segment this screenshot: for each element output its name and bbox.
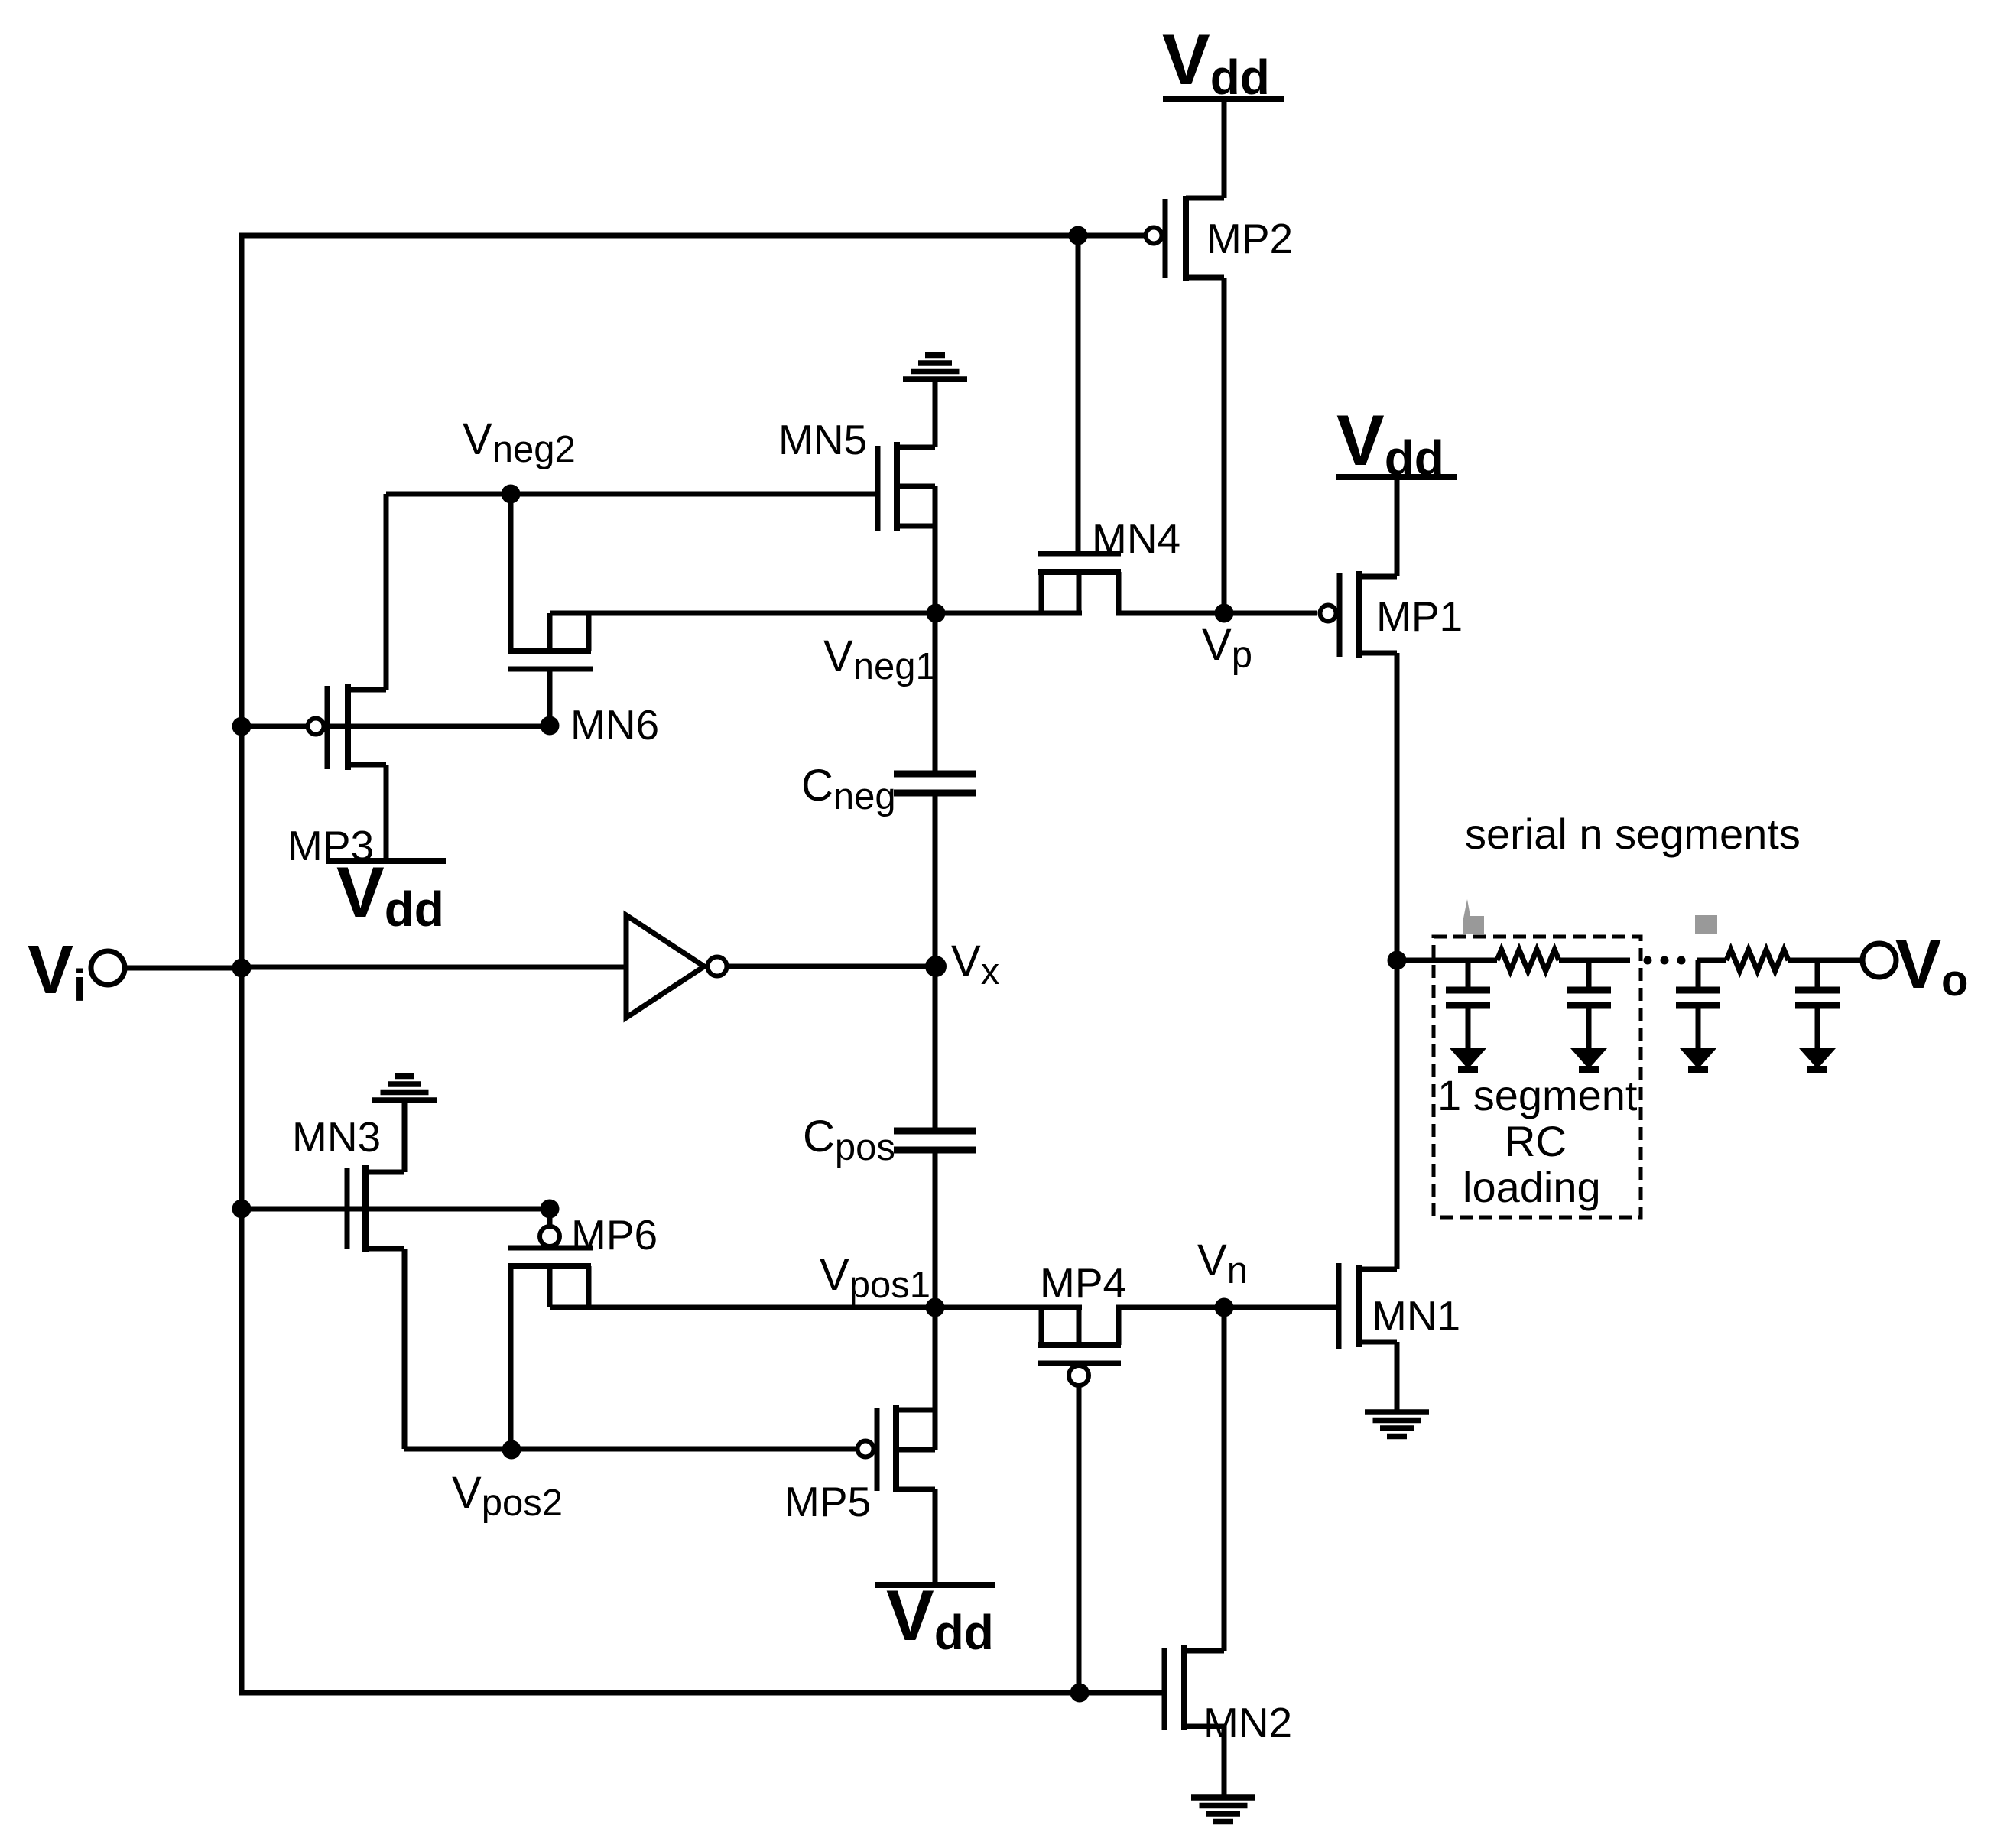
wire inverter output to node Vx bbox=[727, 964, 936, 969]
node junction bottom wire / MP4 gate lead bbox=[1070, 1684, 1090, 1703]
wire R2 to terminal Vo bbox=[1788, 958, 1862, 963]
node MN6 gate junction bbox=[541, 716, 560, 736]
wire gate line from left rail through MP3 to MN6 gate bbox=[242, 724, 550, 729]
svg-text:loading: loading bbox=[1463, 1163, 1601, 1211]
terminal Vo bbox=[1862, 927, 1968, 1005]
power Vdd rail (inverted) for MP5 bbox=[875, 1575, 995, 1660]
node MP6 gate junction bbox=[541, 1200, 560, 1219]
node junction Vi / left rail bbox=[232, 959, 252, 978]
power Vdd rail for MP2 bbox=[1162, 19, 1284, 105]
wire MP6 to node Vpos1 and MP4 bbox=[550, 1305, 1082, 1310]
node Vn bbox=[1215, 1298, 1234, 1317]
capacitor C1 (segment 1 input) bbox=[1446, 960, 1490, 1049]
svg-text:MP1: MP1 bbox=[1376, 593, 1463, 640]
wire left vertical rail from top wire to bottom wire bbox=[239, 233, 245, 1695]
transistor MP3 (PMOS) bbox=[287, 684, 386, 869]
node Vpos2 bbox=[502, 1440, 521, 1460]
wire node Vn to MN1 gate bbox=[1224, 1305, 1339, 1310]
svg-text:MP5: MP5 bbox=[784, 1478, 871, 1525]
ground arrow under C1 bbox=[1450, 1048, 1486, 1073]
node Vp bbox=[1215, 604, 1234, 623]
svg-text:MN2: MN2 bbox=[1203, 1699, 1292, 1746]
wire Vi to left rail bbox=[125, 966, 242, 971]
capacitor C2 (segment 1 output) bbox=[1567, 960, 1611, 1049]
wire MP5 source down to Vdd (inverted) bbox=[933, 1489, 938, 1585]
wire gate line from left rail through MN3 to MP6 gate bbox=[242, 1207, 550, 1212]
transistor MN6 (NMOS, rotated) bbox=[508, 613, 659, 749]
transistor MP4 (PMOS pass, rotated) bbox=[1038, 1259, 1126, 1385]
node junction left rail / MP3-MN6 gate wire bbox=[232, 717, 252, 736]
svg-text:serial n segments: serial n segments bbox=[1465, 810, 1801, 858]
wire Vneg2 left end down to MP3 source bbox=[384, 494, 389, 690]
wire last segment input bbox=[1697, 958, 1726, 963]
wire MN4 to node Vp bbox=[1116, 611, 1224, 616]
wire Vneg2 node down to MN6 drain bbox=[508, 494, 514, 651]
transistor MN1 (NMOS) bbox=[1339, 1263, 1460, 1349]
node junction left rail / MN3 gate wire bbox=[232, 1200, 252, 1219]
ground at MN5 drain bbox=[903, 356, 967, 380]
wire R1 to segment edge bbox=[1559, 958, 1630, 963]
wire MP4 to node Vn bbox=[1116, 1305, 1224, 1310]
resistor R2 (last segment) bbox=[1726, 950, 1788, 971]
wire ground to MN3 drain bbox=[402, 1103, 408, 1172]
wire MN3 source down to node Vpos2 bbox=[402, 1249, 408, 1449]
wire MP4 gate lead down to bottom junction bbox=[1077, 1386, 1082, 1693]
wire Vdd bar to MP2 source bbox=[1222, 99, 1227, 198]
wire MP1 drain down to output node bbox=[1395, 653, 1400, 960]
wire MN1 source down to ground bbox=[1395, 1342, 1400, 1410]
wire node Vneg2 horizontal to MN5 gate bbox=[386, 492, 878, 497]
wire Vpos1 node down to MP5 bbox=[933, 1307, 938, 1410]
wire Vdd bar to MP1 source bbox=[1395, 477, 1400, 576]
wire MN2 source down to ground bbox=[1222, 1726, 1227, 1795]
resistor R1 (segment 1) bbox=[1497, 950, 1559, 971]
svg-text:MP6: MP6 bbox=[571, 1211, 658, 1259]
wire node Vp to MP1 gate bbox=[1224, 611, 1317, 616]
transistor MN5 (NMOS) bbox=[778, 416, 935, 531]
capacitor C3 (last segment input) bbox=[1676, 960, 1720, 1049]
node Vx bbox=[925, 956, 947, 977]
dots continuation of RC chain bbox=[1644, 956, 1652, 965]
svg-text:MN1: MN1 bbox=[1372, 1292, 1460, 1340]
ground at MN3 drain bbox=[372, 1077, 437, 1101]
artifact grey mark 2 bbox=[1695, 915, 1717, 934]
dashed box 1 segment RC loading bbox=[1434, 937, 1641, 1217]
artifact grey mark 1 bbox=[1463, 899, 1484, 934]
ground arrow under C2 bbox=[1570, 1048, 1607, 1073]
wire gate lead from top junction down to MN4 bbox=[1076, 235, 1081, 551]
svg-text:MN6: MN6 bbox=[570, 701, 659, 749]
wire MP3 drain down to Vdd (inverted) bbox=[384, 765, 389, 861]
wire left rail to inverter input bbox=[242, 965, 626, 970]
svg-text:MN3: MN3 bbox=[292, 1113, 381, 1161]
svg-text:1 segment: 1 segment bbox=[1437, 1071, 1638, 1119]
svg-text:MN4: MN4 bbox=[1092, 515, 1180, 562]
wire Cpos down to node Vpos1 bbox=[933, 1150, 938, 1307]
node Vpos1 bbox=[926, 1298, 945, 1317]
wire node Vpos2 horizontal to MP5 gate bbox=[404, 1447, 856, 1452]
transistor MP5 (PMOS) bbox=[784, 1405, 935, 1525]
wire output node to RC segment 1 bbox=[1397, 958, 1497, 963]
ground arrow under C3 bbox=[1680, 1048, 1716, 1073]
capacitor Cpos bbox=[803, 1112, 976, 1168]
svg-text:MP2: MP2 bbox=[1206, 215, 1293, 262]
inverter U1 bbox=[626, 915, 727, 1018]
transistor MN4 (NMOS pass, rotated) bbox=[1038, 515, 1180, 613]
ground arrow under C4 bbox=[1799, 1048, 1836, 1073]
power Vdd rail for MP1 bbox=[1336, 400, 1457, 486]
svg-text:MN5: MN5 bbox=[778, 416, 867, 463]
wire node Vneg1 down to Cneg bbox=[933, 613, 938, 774]
wire MN5 source down to node Vneg1 bbox=[933, 526, 938, 613]
svg-text:RC: RC bbox=[1505, 1117, 1567, 1165]
wire bottom horizontal from left rail to MN2 gate bbox=[239, 1690, 1164, 1696]
wire Cneg down to node Vx bbox=[933, 793, 938, 966]
ground at MN1 source bbox=[1365, 1412, 1429, 1437]
node output (MP1 drain / MN1 drain / RC line) bbox=[1388, 951, 1407, 970]
transistor MN2 (NMOS) bbox=[1164, 1645, 1292, 1746]
wire node Vneg1 to MN4 bbox=[550, 611, 1082, 616]
wire MP2 drain down to node Vp bbox=[1222, 278, 1227, 613]
transistor MN3 (NMOS) bbox=[292, 1113, 404, 1252]
wire output node down to MN1 drain bbox=[1395, 960, 1400, 1269]
terminal Vi bbox=[28, 932, 125, 1011]
transistor MP1 (PMOS) bbox=[1320, 571, 1463, 658]
transistor MP2 (PMOS) bbox=[1146, 196, 1294, 281]
wire node Vn down to MN2 drain bbox=[1222, 1307, 1227, 1651]
ground at MN2 source bbox=[1191, 1798, 1255, 1822]
power Vdd rail (inverted) for MP3 bbox=[326, 852, 446, 937]
node Vneg1 bbox=[927, 604, 946, 623]
svg-text:MP4: MP4 bbox=[1040, 1259, 1126, 1307]
wire top horizontal from left rail to MP2 gate bbox=[239, 233, 1146, 239]
transistor MP6 (PMOS, rotated) bbox=[508, 1209, 658, 1449]
wire node Vx down to Cpos bbox=[933, 966, 938, 1131]
wire ground to MN5 drain bbox=[933, 382, 938, 447]
node Vneg2 bbox=[502, 485, 521, 504]
node junction top wire / MN4 gate lead bbox=[1069, 226, 1088, 245]
capacitor Cneg bbox=[801, 761, 976, 817]
capacitor C4 (last segment output) bbox=[1795, 960, 1840, 1049]
